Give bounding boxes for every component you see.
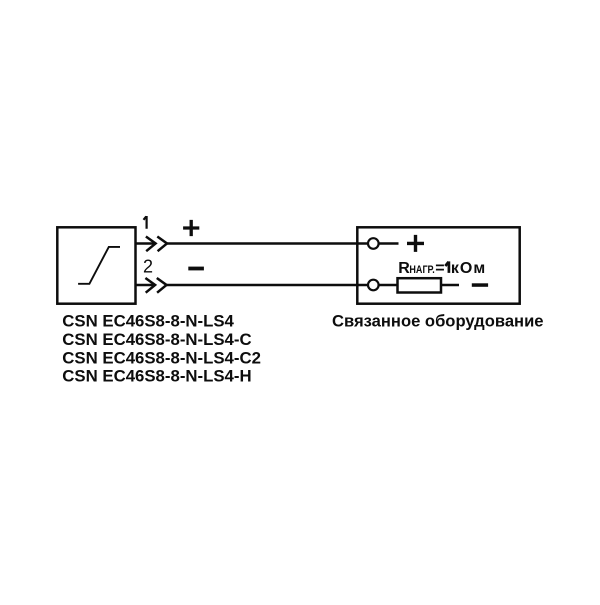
polarity minus label on wire 2 [188,267,204,271]
pin 1 label [144,216,147,229]
svg-text:R: R [398,260,410,277]
svg-text:кОм: кОм [451,260,486,277]
switching characteristic symbol inside sensor box [78,247,120,284]
wire from − terminal to load resistor [379,284,397,287]
wire from resistor to minus symbol [441,284,459,287]
connector chevrons on wire 2 [145,278,166,293]
sensor box (CSN proximity switch outline) [57,227,135,303]
equipment box (Связанное оборудование) [357,227,519,303]
plus symbol inside equipment box [407,235,424,252]
svg-text:2: 2 [143,257,153,277]
svg-text:Связанное оборудование: Связанное оборудование [332,312,544,331]
svg-text:CSN EC46S8-8-N-LS4-C2: CSN EC46S8-8-N-LS4-C2 [62,348,261,367]
terminal circle on − input [368,280,379,291]
svg-text:CSN EC46S8-8-N-LS4-H: CSN EC46S8-8-N-LS4-H [62,367,251,386]
svg-text:=: = [435,260,444,277]
wire: pin 1 stub from sensor box [136,242,156,245]
wire 1: chevron to equipment box (+ line) [167,242,368,245]
svg-text:CSN EC46S8-8-N-LS4: CSN EC46S8-8-N-LS4 [62,312,234,331]
svg-text:CSN EC46S8-8-N-LS4-C: CSN EC46S8-8-N-LS4-C [62,330,251,349]
resistor Rнагр (load resistor) [398,278,442,292]
resistor value label: digit 1 [445,261,449,273]
polarity plus label on wire 1 [183,220,199,236]
connector chevrons on wire 1 [146,237,167,252]
wire 2: chevron to equipment box (− line) [167,284,368,287]
wire from + terminal into box [379,242,398,245]
terminal circle on + input [368,238,379,249]
svg-text:НАГР.: НАГР. [409,264,434,276]
minus symbol inside equipment box [472,283,488,287]
wire: pin 2 stub from sensor box [136,284,156,287]
